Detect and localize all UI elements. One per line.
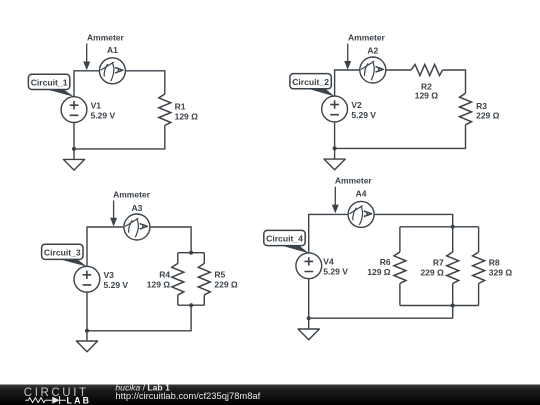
label R8 329 ohm [489, 257, 513, 277]
ammeter A3 [124, 214, 150, 240]
resistor R7 [447, 252, 459, 284]
svg-text:5.29 V: 5.29 V [104, 280, 129, 290]
wire: circuit 2 bottom net (V2 bottom to R3 bottom) [335, 122, 466, 149]
svg-text:R3: R3 [476, 101, 487, 111]
annotation: Ammeter arrow circuit 1 [83, 33, 124, 71]
callout Circuit_2 [290, 74, 335, 97]
label V2 5.29 V [351, 100, 376, 120]
node: circuit 4 parallel top junction [451, 225, 455, 229]
label R4 129 ohm [147, 269, 171, 289]
wire: circuit 1 top net (V1 top to A1 to R1 top) [74, 71, 165, 97]
annotation: Ammeter arrow circuit 3 [110, 189, 151, 226]
label R3 229 ohm [476, 101, 500, 121]
ground: circuit 2 [324, 148, 345, 169]
label R2 129 ohm [415, 82, 439, 101]
svg-text:329 Ω: 329 Ω [489, 267, 513, 277]
svg-text:129 Ω: 129 Ω [175, 111, 199, 121]
wire: circuit 2 top net (V2 top to A2 to R2 to R3 top) [335, 70, 466, 96]
svg-text:A1: A1 [107, 45, 118, 55]
wire: circuit 3 parallel branches frame [178, 253, 205, 306]
voltage source V1 [61, 97, 87, 123]
svg-text:229 Ω: 229 Ω [214, 279, 238, 289]
svg-text:Ammeter: Ammeter [87, 33, 125, 43]
wire: circuit 1 bottom net (V1 bottom to R1 bottom) [74, 123, 165, 149]
node: circuit 4 parallel bottom junction [451, 304, 455, 308]
svg-text:V2: V2 [351, 100, 362, 110]
resistor R2 [411, 65, 443, 76]
wire: circuit 4 bottom net [309, 279, 453, 319]
wire: circuit 3 bottom net [87, 292, 191, 331]
wire: circuit 4 parallel bottom bus [400, 284, 479, 306]
svg-text:R8: R8 [489, 257, 500, 267]
svg-text:229 Ω: 229 Ω [420, 267, 444, 277]
svg-text:R6: R6 [380, 257, 391, 267]
svg-text:A2: A2 [367, 46, 378, 56]
voltage source V4 [296, 253, 322, 279]
node: circuit 3 parallel bottom junction [189, 303, 193, 307]
svg-text:229 Ω: 229 Ω [476, 111, 500, 121]
svg-text:Ammeter: Ammeter [335, 176, 373, 186]
ammeter A1 [99, 58, 125, 84]
svg-text:A3: A3 [131, 203, 142, 213]
svg-text:5.29 V: 5.29 V [323, 267, 348, 277]
ground: circuit 3 [76, 331, 97, 352]
resistor R8 [473, 252, 485, 284]
node: circuit 4 ground junction [307, 316, 311, 320]
label R6 129 ohm [367, 257, 391, 277]
wire: circuit 4 parallel top bus [400, 227, 479, 252]
resistor R1 [159, 94, 171, 126]
svg-text:Circuit_3: Circuit_3 [44, 247, 81, 257]
logo resistor-diode symbol [25, 396, 66, 404]
svg-text:R1: R1 [175, 101, 186, 111]
svg-text:Circuit_1: Circuit_1 [31, 78, 68, 88]
resistor R3 [460, 93, 472, 125]
label R1 129 ohm [175, 101, 199, 121]
callout Circuit_1 [28, 74, 74, 97]
svg-text:Circuit_4: Circuit_4 [266, 234, 303, 244]
svg-text:http://circuitlab.com/cf235qj7: http://circuitlab.com/cf235qj78m8af [115, 390, 260, 401]
svg-text:A4: A4 [356, 188, 367, 198]
resistor R6 [394, 252, 406, 284]
svg-text:V3: V3 [104, 270, 115, 280]
svg-text:Circuit_2: Circuit_2 [292, 77, 329, 87]
svg-text:R7: R7 [433, 257, 444, 267]
wire: circuit 4 top net (V4 top to A4 to parallel feed) [309, 214, 453, 253]
svg-text:V4: V4 [323, 257, 334, 267]
node: circuit 2 ground junction [333, 146, 337, 150]
svg-text:R5: R5 [214, 269, 225, 279]
label R7 229 ohm [420, 257, 444, 277]
label R5 229 ohm [214, 269, 238, 289]
label V1 5.29 V [91, 100, 116, 120]
label V4 5.29 V [323, 257, 348, 277]
resistor R4 [172, 263, 184, 295]
svg-text:LAB: LAB [67, 395, 92, 405]
svg-text:129 Ω: 129 Ω [415, 91, 439, 101]
node: circuit 3 ground junction [85, 329, 89, 333]
svg-text:V1: V1 [91, 100, 102, 110]
ammeter A2 [360, 57, 386, 83]
ground: circuit 4 [298, 318, 319, 340]
annotation: Ammeter arrow circuit 4 [332, 176, 373, 214]
svg-text:129 Ω: 129 Ω [147, 279, 171, 289]
svg-text:Ammeter: Ammeter [113, 189, 151, 199]
svg-text:R4: R4 [159, 269, 170, 279]
wire: circuit 3 top net (V3 top to A3 to parallel top) [87, 227, 191, 266]
ammeter A4 [348, 201, 374, 227]
resistor R5 [198, 263, 210, 295]
svg-text:129 Ω: 129 Ω [367, 267, 391, 277]
voltage source V2 [322, 96, 348, 122]
node: circuit 3 parallel top junction [189, 251, 193, 255]
svg-text:5.29 V: 5.29 V [91, 110, 116, 120]
ground: circuit 1 [63, 149, 84, 170]
svg-text:5.29 V: 5.29 V [351, 110, 376, 120]
callout Circuit_4 [264, 230, 309, 253]
annotation: Ammeter arrow circuit 2 [344, 32, 385, 69]
voltage source V3 [74, 266, 100, 292]
label V3 5.29 V [104, 270, 129, 290]
node: circuit 1 ground junction [72, 147, 76, 151]
svg-text:Ammeter: Ammeter [348, 32, 386, 42]
callout Circuit_3 [42, 244, 87, 266]
